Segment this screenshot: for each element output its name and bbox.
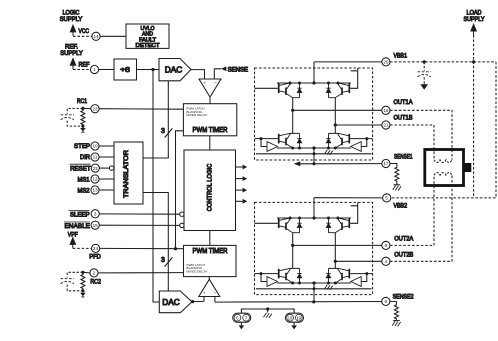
svg-text:19: 19 [296,315,301,320]
bridge 2 outline (dashed) [255,202,373,294]
gate buffer A4 [351,142,362,152]
svg-text:24: 24 [93,246,99,251]
op-amp comparator A2 (points up) [199,279,220,296]
wire bridge2 top rail [277,217,351,219]
control output arrow 3 [236,188,248,193]
diode D8 [326,268,330,283]
pin 14 [92,32,100,40]
wire OUT2A to pin 9 [293,244,382,246]
bus width slash 3 (top) [161,128,172,138]
wire OUT1A dashed to motor [390,110,452,160]
svg-text:5: 5 [385,196,388,201]
node SENSE2 / bridge2 return junction [312,300,315,303]
wire node OUT2A vertical [292,233,294,269]
control logic block U2 [184,150,236,231]
pin 12 MS1 [78,175,115,183]
pin 2 RC2 [90,269,98,277]
DAC U3 (bottom) [159,291,192,313]
svg-text:MIXED DECAY: MIXED DECAY [186,113,207,117]
resistor R-SENSE1 [390,164,399,185]
wire OUT1A to pin 16 [293,109,382,111]
node ground bus center [266,307,269,310]
ground arrow below cap [421,83,427,88]
wire bridge1 top rail [277,82,351,84]
wire PWM1 to control logic [209,136,211,150]
resistor R-SENSE2 [390,301,399,320]
wire RC2 to PWM timer 2 [98,272,183,274]
svg-text:STEP: STEP [74,143,90,150]
wire VBB1 dashed to load supply [390,61,496,63]
wire comparator2 out to PWM2 [208,277,210,280]
PWM timer 2 block [184,245,237,276]
wire dashed to C-RC1 [67,108,83,113]
node DAC2 output [191,300,194,303]
node gate Q4 [365,137,368,140]
wire bridge1 lower return line [256,153,372,155]
node RC2 bottom junction [81,289,84,292]
wire bridge1 sense leg [313,148,315,164]
pin 15 ENABLE (active low) [64,221,184,230]
wire bridge1 bottom rail [277,147,351,149]
svg-text:ENABLE: ENABLE [65,223,91,230]
node return junction bridge2 [313,287,316,290]
svg-text:13: 13 [92,188,98,193]
svg-text:+: + [203,82,206,87]
svg-text:OUT2A: OUT2A [394,235,414,242]
svg-text:3: 3 [94,212,97,217]
resistor R-RC2 [81,272,85,291]
pin 17 SENSE1 [382,159,390,167]
svg-text:CONTROL LOGIC: CONTROL LOGIC [206,163,213,211]
pin 13 MS2 [78,186,115,194]
wire low-side drain rails bridge1 [290,132,339,134]
diode D4 [326,133,330,148]
ground below R-SENSE1 [393,185,401,191]
svg-text:MS1: MS1 [78,176,90,183]
node SENSE arrow flag [221,67,227,72]
UVLO AND FAULT DETECT block [126,24,169,49]
wire VBB2 dashed loop from load supply [391,62,496,198]
node return junction bridge1 [313,152,316,155]
pins 6 7 ground oval [233,313,251,322]
svg-text:VBB2: VBB2 [394,203,408,210]
wire OUT2B dashed to motor [390,175,452,261]
wire gate drive Q3 [255,139,278,147]
wire gate drive Q1 [255,87,278,89]
wire dashed to C-RC2 [67,272,83,277]
wire ground bus [241,309,294,313]
svg-text:3: 3 [161,128,165,135]
wire pin23 left to RC node [83,107,91,109]
node sense feedback arrow (to comparator) [294,161,301,166]
svg-text:REF: REF [79,62,90,69]
wire gate drive Q4 [350,139,372,147]
translator block [114,142,143,204]
node rail dots bridge2 [289,216,340,219]
pin 16 OUT1A [382,106,390,114]
svg-text:MS2: MS2 [78,187,90,194]
pin 22 RESET (active low) [70,164,114,172]
wire gate drive Q6 [350,202,358,223]
svg-text:10: 10 [92,144,98,149]
control output arrow 1 [236,165,248,170]
gate buffer A3 [267,142,278,152]
node bottom rail dots bridge1 [291,146,337,149]
wire control logic to PWM2 [209,231,211,246]
wire node OUT1A vertical [292,98,294,134]
svg-text:DIR: DIR [80,154,90,161]
svg-text:22: 22 [93,166,99,171]
label LOAD SUPPLY [464,10,486,23]
pin 1 [90,65,98,73]
node PFD junction [174,247,177,250]
pin 21 OUT1B [382,121,390,129]
wire OUT1B dashed to motor [390,125,434,160]
wire gate drive Q7 [255,274,278,282]
wire OUT2A dashed to motor [390,175,434,245]
transistor Q1 (high side A) [279,83,300,98]
PWM timer 1 block [183,104,236,136]
node gate Q7 [260,272,263,275]
svg-text:16: 16 [383,108,389,113]
svg-text:SLEEP: SLEEP [70,212,90,219]
pin 4 OUT2B [382,257,390,265]
svg-text:MIXED DECAY: MIXED DECAY [187,270,208,274]
svg-text:VCC: VCC [79,28,90,35]
op-amp comparator A1 (current comparator, points down) [199,79,221,97]
svg-text:VBB1: VBB1 [394,53,408,60]
wire RC1 to PWM timer 1 [99,108,183,111]
svg-text:SUPPLY: SUPPLY [464,16,486,23]
REF supply arrow [70,59,75,70]
svg-text:PFD: PFD [89,253,101,260]
control output arrow 2 [236,176,248,181]
svg-text:TRANSLATOR: TRANSLATOR [123,150,130,198]
wire pin14 to UVLO [100,35,126,37]
wire bridge2 bottom rail [277,282,351,284]
wire REF dashed to pin 1 [73,69,90,71]
svg-text:15: 15 [93,223,99,228]
svg-text:2: 2 [93,271,96,276]
svg-text:23: 23 [92,106,98,111]
divide-by-8 block [114,59,137,80]
svg-text:OUT2B: OUT2B [394,252,413,259]
svg-text:PWM TIMER: PWM TIMER [193,127,228,134]
wire cap to ground dashed [423,77,425,83]
node OUT2A junction [291,244,294,247]
svg-text:RESET: RESET [70,165,91,172]
diode D6 [326,218,330,233]
svg-text:RC1: RC1 [77,98,87,105]
transistor Q8 (low side B) [329,268,350,283]
pin 11 DIR [80,153,114,161]
wire node OUT1B vertical [334,98,336,134]
LOAD SUPPLY arrow [471,24,476,35]
wire div8 to DAC1 [137,69,160,71]
svg-text:1: 1 [93,67,96,72]
transistor Q3 (low side A) [279,133,300,148]
node gate Q8 [365,272,368,275]
bus width slash 3 (bottom) [161,257,172,267]
diode D3 [297,133,301,148]
node gate Q3 [260,137,263,140]
ground arrow below pins 6 7 [239,322,245,329]
wire gate drive Q5 [255,222,278,224]
bridge 1 outline (dashed) [255,68,373,160]
svg-text:−: − [214,81,217,86]
wire DAC1 out to comparator + [191,70,205,79]
wire pin2 left to RC2 node [83,271,90,274]
wire OUT2B to pin 4 [335,260,382,262]
diode D5 [297,218,301,233]
gate buffer A6 [351,277,362,287]
wire OUT1B to pin 21 [335,124,382,126]
ground chassis inside bridge2 [324,283,332,290]
label REF. SUPPLY [60,44,83,57]
VPF supply arrow [70,238,75,249]
svg-text:4: 4 [385,259,388,264]
svg-text:18: 18 [288,315,293,320]
svg-text:11: 11 [93,155,98,160]
wire VBB1 to bridge1 [314,61,382,63]
svg-text:3: 3 [161,257,165,264]
wire VPF dashed to pin 24 [73,247,92,249]
svg-text:OUT1B: OUT1B [394,115,413,122]
pin 20 VBB1 [382,58,390,66]
DAC U1 (top) [159,59,191,81]
ground chassis inside bridge1 [324,148,332,155]
node VBB1 cap junction [423,60,426,63]
svg-text:SENSE1: SENSE1 [394,154,413,161]
svg-text:DAC: DAC [162,298,180,307]
winding 2 (stepper phase B, dashed) [434,173,452,176]
pin 24 PFD [92,244,100,252]
wire comparator2 + input stub [203,297,205,302]
node RC1 bottom junction [81,125,84,128]
svg-text:8: 8 [385,299,388,304]
node RC2 junction [81,271,84,274]
pin 5 VBB2 [383,194,391,202]
svg-text:DETECT: DETECT [136,43,161,49]
VCC supply arrow [70,25,75,36]
pin 23 [91,105,99,113]
svg-text:−: − [213,291,216,296]
winding 1 (stepper phase A, dashed) [434,160,452,163]
node RC1 junction [81,107,84,110]
wire node OUT2B vertical [334,233,336,269]
svg-text:SENSE2: SENSE2 [393,294,414,301]
pins 18 19 ground oval [285,313,303,322]
ground below R-RC2 [80,291,86,297]
svg-text:+: + [203,291,206,296]
label LOGIC SUPPLY [60,10,83,23]
svg-text:SUPPLY: SUPPLY [60,16,83,23]
pin 10 STEP [74,142,114,150]
wire gate drive Q8 [350,274,372,282]
wire gate drive Q2 [350,68,358,88]
node OUT1B junction [334,123,337,126]
wire load supply vertical (dashed) [473,35,475,198]
capacitor C-VBB (bulk, external) [418,72,431,77]
transistor Q2 (high side B) [329,83,350,98]
node bottom rail dots bridge2 [291,281,337,284]
capacitor C-RC1 [61,115,74,120]
ground below R-RC1 [80,126,86,132]
wire SENSE2 net [215,301,382,304]
node OUT2B junction [334,260,337,263]
wire comparator2 - input stub [214,297,216,303]
stepper motor body [425,150,472,186]
svg-text:SUPPLY: SUPPLY [60,50,83,57]
pin 3 SLEEP (active low) [69,210,185,219]
wire low-side drain rails bridge2 [290,267,339,269]
node SENSE1 junction [312,162,315,165]
wire DAC2 out to comparator2 + [192,300,204,302]
node REF/8 junction [151,68,154,71]
wire PFD up to PWM timer 1 [176,131,184,249]
svg-text:PWM TIMER: PWM TIMER [193,248,228,255]
wire cap branch dashed [423,62,425,71]
ground arrow below pins 18 19 [291,322,297,329]
wire VBB2 to bridge2 [314,197,383,199]
wire SENSE1 to pin 17 [300,163,382,165]
node rail dots bridge1 [289,81,340,84]
diode D1 [297,83,301,98]
ground below R-SENSE2 [392,321,400,327]
diode D7 [297,268,301,283]
wire comparator - to SENSE flag [214,69,221,79]
svg-text:9: 9 [385,243,388,248]
wire comparator1 out to PWM timer 1 [209,97,211,104]
pin 8 SENSE2 [382,297,390,305]
wire bridge2 sense leg [313,283,315,302]
control output arrow 4 [236,199,248,204]
transistor Q4 (low side B) [329,133,350,148]
node load supply junction [472,60,475,63]
wire VBB1 entry into bridge 1 [313,62,315,83]
svg-text:20: 20 [383,60,389,65]
wire VCC dashed to pin 14 [73,35,92,37]
svg-text:17: 17 [383,161,389,166]
svg-text:÷8: ÷8 [120,67,130,74]
wire PFD to PWM timer 2 [100,247,184,249]
wire REF/8 vertical down to DAC2 [153,70,159,303]
wire C-RC1 bottom dashed [67,121,83,127]
wire bus translator to DAC2 [143,193,168,292]
wire bridge2 lower return line [256,288,372,290]
svg-text:SENSE: SENSE [228,66,249,73]
capacitor C-RC2 [61,279,74,284]
wire bus translator to DAC1 [143,81,168,158]
node OUT1A junction [291,109,294,112]
pin 9 OUT2A [382,241,390,249]
wire C-RC2 bottom dashed [67,285,83,291]
resistor R-RC1 [81,108,85,126]
svg-text:21: 21 [383,123,389,128]
diode D2 [326,83,330,98]
svg-text:DAC: DAC [165,66,183,75]
svg-text:RC2: RC2 [90,278,101,285]
transistor Q5 (high side A) [279,218,300,233]
wire pin1 to divider [99,69,114,71]
svg-text:OUT1A: OUT1A [394,99,414,106]
ground chassis symbol center [264,309,272,318]
gate buffer A5 [267,277,278,287]
transistor Q6 (high side B) [329,218,350,233]
transistor Q7 (low side A) [279,268,300,283]
svg-text:12: 12 [92,177,98,182]
wire VBB2 entry into bridge 2 [313,198,315,218]
svg-text:14: 14 [93,34,99,39]
